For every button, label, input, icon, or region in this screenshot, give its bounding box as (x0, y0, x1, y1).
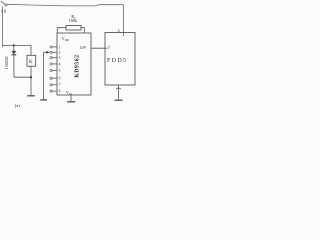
diode D 1N4002 triangle (12, 51, 17, 55)
resistor R1 lead left (57, 28, 66, 33)
IC pin 4 circle (50, 63, 52, 65)
resistor R1 body (66, 25, 81, 30)
svg-text:2: 2 (59, 51, 61, 55)
wire top horizontal from switch to right (7, 4, 124, 6)
IC pin 1 stub (52, 46, 57, 48)
IC pin 6 stub (52, 77, 57, 79)
FDD5 bottom stub (118, 85, 120, 100)
IC pin 1 circle (50, 46, 52, 48)
svg-text:3: 3 (108, 46, 110, 50)
relay K lead bottom (30, 66, 32, 95)
arrowhead into pin 1 (46, 51, 49, 54)
IC VSS stub (70, 95, 72, 101)
ground under IC VSS (67, 101, 75, 103)
IC pin 7 circle (50, 84, 52, 86)
svg-text:8: 8 (59, 90, 61, 94)
svg-text:KD9562: KD9562 (74, 55, 80, 78)
node junction dot relay bottom (30, 76, 32, 78)
switch LS terminal circle (5, 4, 7, 6)
ground under FDD5 (115, 99, 123, 101)
svg-text:K: K (29, 60, 33, 65)
FDD5 box (105, 33, 135, 86)
svg-text:LS: LS (1, 8, 7, 13)
svg-text:O/P: O/P (80, 46, 86, 50)
ground under relay K (27, 95, 35, 97)
svg-text:2: 2 (118, 29, 120, 33)
IC pin 2 stub (52, 51, 57, 53)
wire pin1 input rail vertical (43, 52, 45, 99)
IC pin 5 stub (52, 69, 57, 71)
svg-text:5: 5 (59, 69, 61, 73)
IC pin 3 stub (52, 57, 57, 59)
svg-text:7: 7 (59, 83, 61, 87)
diode D 1N4002 leads (13, 45, 15, 77)
svg-text:(a): (a) (15, 103, 20, 108)
IC pin 6 circle (50, 77, 52, 79)
IC pin 8 stub (52, 90, 57, 92)
wire VDD feed to IC (3, 35, 58, 37)
svg-text:6: 6 (59, 77, 61, 81)
IC pin 4 stub (52, 63, 57, 65)
IC pin 8 circle (50, 90, 52, 92)
svg-text:VDD: VDD (62, 36, 69, 42)
wire top right vertical down to FDD5 pin 2 (123, 5, 125, 37)
resistor R1 lead right (81, 28, 84, 33)
svg-text:4: 4 (59, 62, 61, 66)
switch LS lever (1, 1, 5, 4)
wire relay branch horizontal (3, 44, 32, 46)
IC pin 5 circle (50, 69, 52, 71)
wire O/P output to FDD5 pin 3 (91, 47, 107, 49)
relay K lead top (30, 45, 32, 55)
svg-text:3: 3 (59, 56, 61, 60)
FDD5 bottom tick (116, 87, 121, 89)
svg-text:1: 1 (59, 45, 61, 49)
wire diode bottom to relay bottom (14, 76, 31, 78)
svg-text:100k: 100k (69, 18, 78, 23)
relay K box (27, 55, 36, 66)
wire left rail from switch down (2, 7, 4, 48)
IC pin 2 circle (50, 51, 52, 53)
IC U1 KD9562 box (57, 33, 91, 95)
IC pin 3 circle (50, 57, 52, 59)
wire pin1 arrow line (44, 51, 47, 53)
ground under pin1 rail (40, 99, 47, 101)
svg-text:1N4002: 1N4002 (4, 56, 9, 69)
diode D 1N4002 cathode bar (12, 54, 17, 56)
node junction dot diode top (13, 44, 15, 46)
svg-text:FDD5: FDD5 (107, 58, 127, 64)
IC pin 7 stub (52, 84, 57, 86)
